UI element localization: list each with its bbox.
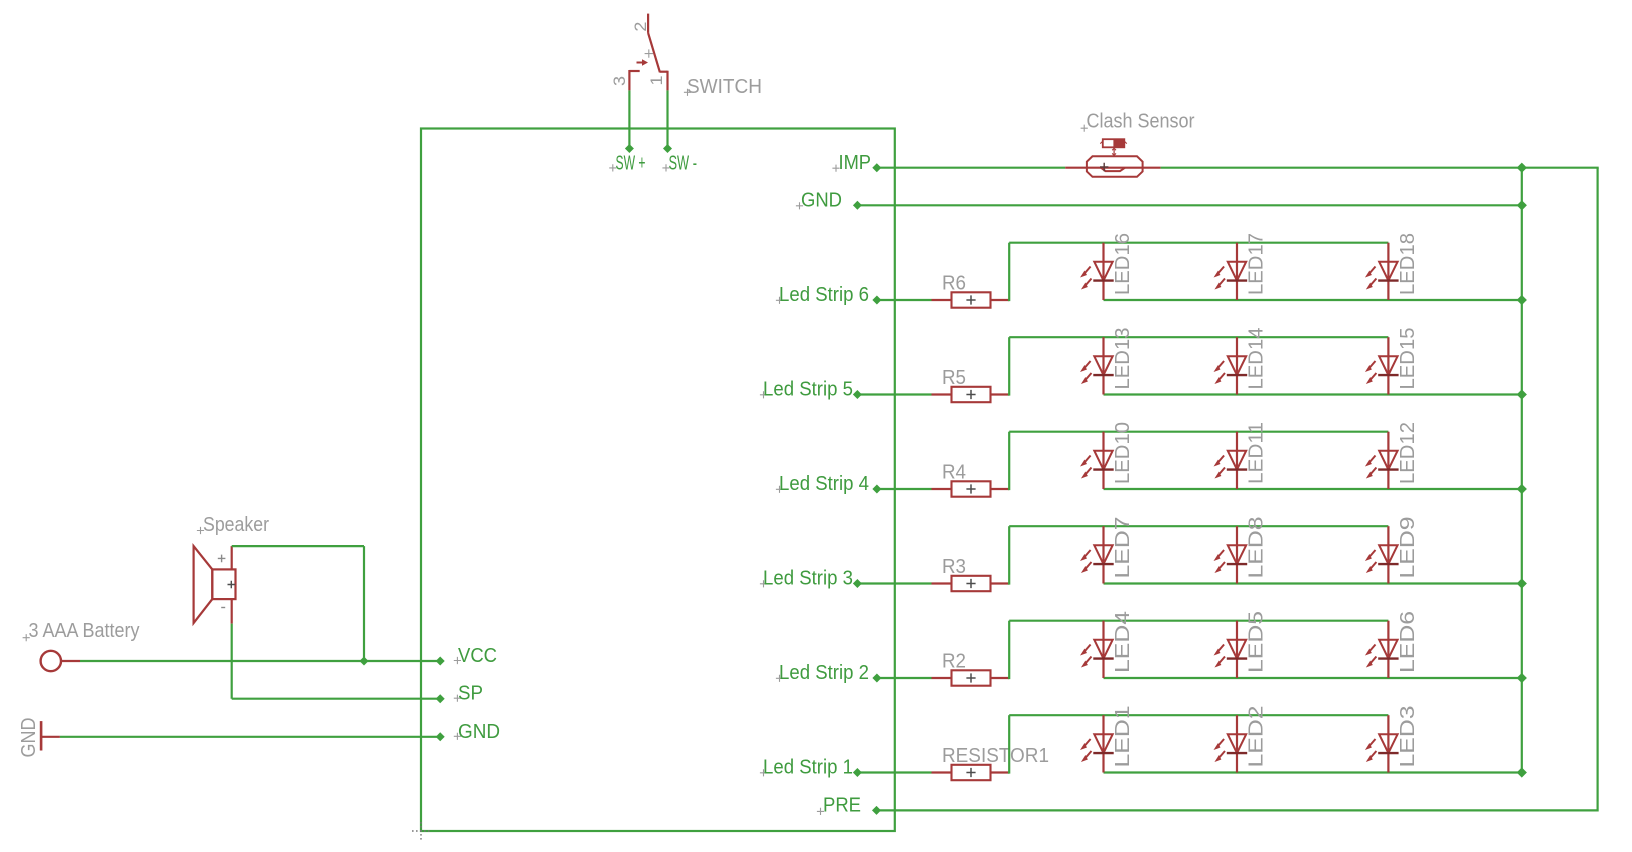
svg-text:1: 1 xyxy=(647,76,666,86)
svg-text:LED14: LED14 xyxy=(1246,328,1268,390)
wire riser after R4 xyxy=(1008,488,1009,490)
LED LED16 emission arrows xyxy=(1080,267,1092,290)
svg-text:GND: GND xyxy=(458,721,500,743)
svg-text:LED5: LED5 xyxy=(1246,611,1268,673)
LED LED13 emission arrows xyxy=(1080,361,1092,384)
LED LED9 xyxy=(1378,526,1398,583)
pin Led Strip 5 junction xyxy=(854,391,862,399)
speaker plus mark above xyxy=(218,555,226,563)
label Led Strip 5 xyxy=(760,378,853,400)
wire speaker top to VCC net xyxy=(232,545,364,547)
LED LED1 emission arrows xyxy=(1080,739,1092,762)
wire bottom rail Led Strip 6 xyxy=(1104,299,1522,301)
wire top rail Led Strip 3 xyxy=(1009,525,1388,527)
LED LED17 emission arrows xyxy=(1214,267,1226,290)
clash sensor lead line xyxy=(1065,167,1160,169)
wire Led Strip 2 pin to resistor R2 xyxy=(877,677,932,679)
wire outer bottom to PRE xyxy=(877,809,1598,811)
svg-text:IMP: IMP xyxy=(839,152,872,174)
svg-text:SW -: SW - xyxy=(669,153,698,175)
origin cross marker at box bottom-left corner xyxy=(412,822,430,840)
label GND left pin xyxy=(454,721,500,743)
speaker SP1 symbol xyxy=(194,546,236,624)
svg-text:LED13: LED13 xyxy=(1112,328,1134,390)
svg-text:LED6: LED6 xyxy=(1397,611,1419,673)
wire bottom rail Led Strip 5 xyxy=(1104,393,1522,395)
wire riser after R6 xyxy=(1008,299,1009,301)
svg-text:LED11: LED11 xyxy=(1246,422,1268,484)
wire bottom rail Led Strip 1 xyxy=(1104,771,1522,773)
resistor RESISTOR1 xyxy=(932,765,1010,780)
label SW - xyxy=(662,153,697,175)
resistor R3 origin cross xyxy=(966,579,975,588)
wire speaker bottom to SP pin xyxy=(231,624,233,699)
label GND right xyxy=(796,190,842,212)
svg-text:Led Strip 5: Led Strip 5 xyxy=(763,378,853,400)
svg-text:LED3: LED3 xyxy=(1397,706,1419,768)
wire riser after R2 xyxy=(1008,677,1009,679)
clash sensor double arrow xyxy=(1112,148,1116,155)
wire SW- pin to switch pin1 xyxy=(666,90,668,148)
svg-text:R2: R2 xyxy=(942,651,966,673)
wire bottom rail Led Strip 4 xyxy=(1104,488,1522,490)
svg-text:Led Strip 2: Led Strip 2 xyxy=(779,662,869,684)
svg-text:LED16: LED16 xyxy=(1112,233,1134,295)
wire bottom rail Led Strip 3 xyxy=(1104,582,1522,584)
label Clash Sensor xyxy=(1081,111,1195,133)
wire Led Strip 3 pin to resistor R3 xyxy=(857,582,931,584)
svg-text:GND: GND xyxy=(18,718,40,758)
clash sensor origin cross xyxy=(1100,163,1108,171)
svg-text:Clash Sensor: Clash Sensor xyxy=(1087,111,1195,133)
wire Led Strip 6 pin to resistor R6 xyxy=(877,299,932,301)
pin Led Strip 3 junction xyxy=(854,580,862,588)
svg-text:LED18: LED18 xyxy=(1397,233,1419,295)
wire ground to GND pin xyxy=(60,736,440,738)
svg-text:Led Strip 4: Led Strip 4 xyxy=(779,473,869,495)
svg-text:R4: R4 xyxy=(942,462,966,484)
pin SP junction xyxy=(436,695,444,703)
LED LED11 emission arrows xyxy=(1214,456,1226,479)
LED LED7 emission arrows xyxy=(1080,550,1092,573)
junction speaker wire on VCC net xyxy=(360,657,368,665)
LED LED18 xyxy=(1378,243,1398,300)
LED LED10 xyxy=(1093,432,1113,489)
svg-text:RESISTOR1: RESISTOR1 xyxy=(942,745,1049,767)
switch actuator arrow xyxy=(637,59,649,65)
wire riser after R3 xyxy=(1008,582,1009,584)
svg-text:R5: R5 xyxy=(942,367,966,389)
wire outer right vertical xyxy=(1596,168,1598,812)
resistor R6 xyxy=(932,292,1010,307)
svg-text:SWITCH: SWITCH xyxy=(687,76,762,98)
pin SW - junction xyxy=(664,145,672,153)
label SW + xyxy=(609,153,645,175)
LED LED14 emission arrows xyxy=(1214,361,1226,384)
svg-text:PRE: PRE xyxy=(823,795,861,817)
pin VCC junction xyxy=(436,657,444,665)
svg-text:LED9: LED9 xyxy=(1397,517,1419,579)
label VCC xyxy=(454,645,497,667)
wire Led Strip 5 pin to resistor R5 xyxy=(857,393,931,395)
LED LED8 xyxy=(1227,526,1247,583)
label Led Strip 3 xyxy=(760,567,853,589)
svg-text:VCC: VCC xyxy=(458,645,497,667)
label Speaker xyxy=(197,514,269,536)
LED LED9 emission arrows xyxy=(1365,550,1377,573)
svg-text:2: 2 xyxy=(631,22,650,32)
switch SWITCH symbol xyxy=(629,14,667,91)
label 3 AAA Battery xyxy=(23,620,140,642)
junction bus at Led Strip 3 xyxy=(1517,579,1526,588)
LED LED4 emission arrows xyxy=(1080,645,1092,668)
wire SW+ pin to switch pin3 xyxy=(628,90,630,148)
pin GND (left) junction xyxy=(436,733,444,741)
pin Led Strip 2 junction xyxy=(873,674,881,682)
label SWITCH xyxy=(684,76,762,98)
LED LED15 emission arrows xyxy=(1365,361,1377,384)
junction bus at Led Strip 2 xyxy=(1517,674,1526,683)
resistor R2 origin cross xyxy=(966,673,975,682)
wire IMP to clash sensor xyxy=(877,167,1065,169)
svg-text:Speaker: Speaker xyxy=(203,514,269,536)
label SP xyxy=(454,683,483,705)
LED LED17 xyxy=(1227,243,1247,300)
LED LED6 emission arrows xyxy=(1365,645,1377,668)
wire top rail Led Strip 5 xyxy=(1009,336,1388,338)
LED LED7 xyxy=(1093,526,1113,583)
pin Led Strip 6 junction xyxy=(873,296,881,304)
LED LED14 xyxy=(1227,337,1247,394)
LED LED4 xyxy=(1093,621,1113,678)
svg-text:R3: R3 xyxy=(942,556,966,578)
switch origin cross xyxy=(645,49,653,57)
svg-text:LED2: LED2 xyxy=(1246,706,1268,768)
svg-text:R6: R6 xyxy=(942,273,966,295)
svg-text:LED10: LED10 xyxy=(1112,422,1134,484)
clash sensor body xyxy=(1087,156,1143,177)
LED LED2 xyxy=(1227,715,1247,772)
LED LED5 xyxy=(1227,621,1247,678)
svg-text:LED1: LED1 xyxy=(1112,706,1134,768)
LED LED18 emission arrows xyxy=(1365,267,1377,290)
svg-text:Led Strip 1: Led Strip 1 xyxy=(763,756,853,778)
LED LED8 emission arrows xyxy=(1214,550,1226,573)
resistor R4 origin cross xyxy=(966,484,975,493)
resistor R5 xyxy=(932,387,1010,402)
pin GND (right) junction xyxy=(854,202,862,210)
pin Led Strip 1 junction xyxy=(854,769,862,777)
pin Led Strip 4 junction xyxy=(873,485,881,493)
resistor RESISTOR1 origin cross xyxy=(966,768,975,777)
wire GND to bus xyxy=(857,204,1521,206)
LED LED13 xyxy=(1093,337,1113,394)
resistor R6 origin cross xyxy=(966,295,975,304)
wire top rail Led Strip 6 xyxy=(1009,242,1388,244)
junction bus at IMP wire xyxy=(1517,163,1526,172)
svg-text:LED7: LED7 xyxy=(1112,517,1134,579)
battery B1 (3 AAA) xyxy=(41,651,80,671)
LED LED16 xyxy=(1093,243,1113,300)
label PRE xyxy=(817,795,861,817)
svg-text:3 AAA Battery: 3 AAA Battery xyxy=(29,620,140,642)
LED LED3 emission arrows xyxy=(1365,739,1377,762)
svg-text:LED12: LED12 xyxy=(1397,422,1419,484)
svg-text:LED15: LED15 xyxy=(1397,328,1419,390)
ground symbol GND xyxy=(41,721,60,750)
speaker plus mark inside xyxy=(228,581,236,589)
svg-text:Led Strip 3: Led Strip 3 xyxy=(763,567,853,589)
LED LED1 xyxy=(1093,715,1113,772)
label Led Strip 4 xyxy=(776,473,869,495)
svg-text:LED8: LED8 xyxy=(1246,517,1268,579)
svg-text:LED17: LED17 xyxy=(1246,233,1268,295)
wire clash sensor to outer right edge xyxy=(1161,167,1599,169)
wire battery to VCC pin xyxy=(80,660,440,662)
wire Led Strip 4 pin to resistor R4 xyxy=(877,488,932,490)
label IMP xyxy=(832,152,871,174)
junction bus at GND wire xyxy=(1517,201,1526,210)
LED LED3 xyxy=(1378,715,1398,772)
LED LED6 xyxy=(1378,621,1398,678)
wire GND bus vertical xyxy=(1521,168,1523,773)
IC main box U1 outline xyxy=(421,129,895,832)
svg-text:SW +: SW + xyxy=(616,153,646,175)
wire riser after RESISTOR1 xyxy=(1008,771,1009,773)
svg-text:Led Strip 6: Led Strip 6 xyxy=(779,284,869,306)
label Led Strip 6 xyxy=(776,284,869,306)
wire bottom rail Led Strip 2 xyxy=(1104,677,1522,679)
pin IMP junction xyxy=(873,164,881,172)
resistor R5 origin cross xyxy=(966,390,975,399)
pin SW + junction xyxy=(626,145,634,153)
resistor R2 xyxy=(932,670,1010,685)
resistor R3 xyxy=(932,576,1010,591)
resistor R4 xyxy=(932,481,1010,496)
junction bus at Led Strip 6 xyxy=(1517,296,1526,305)
LED LED12 xyxy=(1378,432,1398,489)
wire Led Strip 1 pin to resistor RESISTOR1 xyxy=(857,771,931,773)
wire riser after R5 xyxy=(1008,393,1009,395)
junction bus at Led Strip 1 xyxy=(1517,768,1526,777)
LED LED10 emission arrows xyxy=(1080,456,1092,479)
wire top rail Led Strip 4 xyxy=(1009,431,1388,433)
LED LED11 xyxy=(1227,432,1247,489)
LED LED12 emission arrows xyxy=(1365,456,1377,479)
svg-text:3: 3 xyxy=(610,76,629,86)
junction bus at Led Strip 5 xyxy=(1517,390,1526,399)
clash sensor top slider rect xyxy=(1100,139,1127,147)
wire top rail Led Strip 2 xyxy=(1009,620,1388,622)
LED LED15 xyxy=(1378,337,1398,394)
LED LED2 emission arrows xyxy=(1214,739,1226,762)
svg-text:LED4: LED4 xyxy=(1112,611,1134,673)
LED LED5 emission arrows xyxy=(1214,645,1226,668)
svg-text:SP: SP xyxy=(458,683,483,705)
pin PRE junction xyxy=(873,807,881,815)
label Led Strip 1 xyxy=(760,756,853,778)
speaker minus mark xyxy=(221,607,225,609)
label Led Strip 2 xyxy=(776,662,869,684)
wire top rail Led Strip 1 xyxy=(1009,714,1388,716)
junction bus at Led Strip 4 xyxy=(1517,485,1526,494)
svg-text:GND: GND xyxy=(801,190,842,212)
